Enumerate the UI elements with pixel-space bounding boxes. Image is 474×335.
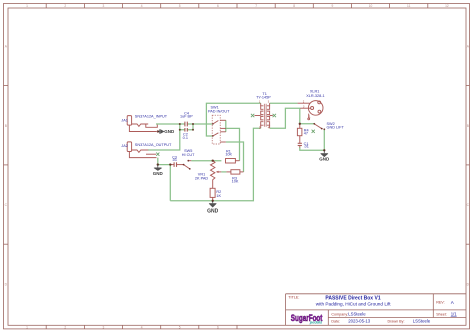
svg-text:with Padding, HiCut and Ground: with Padding, HiCut and Ground Lift xyxy=(316,302,391,307)
svg-text:10K: 10K xyxy=(232,180,239,184)
svg-text:4: 4 xyxy=(141,325,143,329)
svg-text:2: 2 xyxy=(64,4,66,8)
svg-text:SN37A12A_INPUT: SN37A12A_INPUT xyxy=(135,115,168,119)
svg-text:1uF BP: 1uF BP xyxy=(180,115,193,119)
svg-text:GND LIFT: GND LIFT xyxy=(327,125,345,129)
svg-text:TY-145P: TY-145P xyxy=(256,96,271,100)
svg-text:PAD IN/OUT: PAD IN/OUT xyxy=(208,109,230,113)
svg-text:10K: 10K xyxy=(225,153,232,157)
svg-text:LSSteele: LSSteele xyxy=(348,312,366,317)
svg-text:5: 5 xyxy=(179,4,181,8)
svg-text:47: 47 xyxy=(304,132,308,136)
svg-text:3: 3 xyxy=(103,325,105,329)
svg-text:pedals: pedals xyxy=(309,319,323,324)
svg-text:Drawn By:: Drawn By: xyxy=(388,320,405,324)
svg-text:2K PAD: 2K PAD xyxy=(195,176,208,180)
svg-text:.01: .01 xyxy=(304,145,309,149)
svg-text:7: 7 xyxy=(255,4,257,8)
svg-text:JA1: JA1 xyxy=(121,118,128,122)
svg-text:XLR1: XLR1 xyxy=(310,90,320,94)
svg-text:1: 1 xyxy=(26,4,28,8)
svg-text:GND: GND xyxy=(319,157,330,162)
svg-text:Date:: Date: xyxy=(331,320,340,324)
svg-text:11: 11 xyxy=(407,4,411,8)
svg-text:12: 12 xyxy=(445,4,449,8)
svg-text:Company:: Company: xyxy=(331,312,348,316)
svg-text:.01: .01 xyxy=(172,158,177,162)
svg-text:HI CUT: HI CUT xyxy=(182,153,195,157)
svg-text:REV:: REV: xyxy=(436,301,444,305)
svg-text:1/1: 1/1 xyxy=(451,312,458,317)
svg-text:1: 1 xyxy=(26,325,28,329)
svg-text:GND: GND xyxy=(207,209,219,215)
svg-text:1K: 1K xyxy=(216,194,221,198)
svg-text:3: 3 xyxy=(103,4,105,8)
svg-text:6: 6 xyxy=(217,325,219,329)
svg-text:0.1: 0.1 xyxy=(183,136,188,140)
svg-text:9: 9 xyxy=(332,4,334,8)
svg-text:SN37A12A_OUTPUT: SN37A12A_OUTPUT xyxy=(135,143,172,147)
svg-text:TITLE:: TITLE: xyxy=(288,295,299,299)
svg-text:JA2: JA2 xyxy=(121,144,128,148)
svg-text:XLR-328-1: XLR-328-1 xyxy=(306,94,324,98)
svg-text:GND: GND xyxy=(153,171,164,176)
svg-text:GND: GND xyxy=(164,129,175,134)
svg-text:PASSIVE Direct Box V1: PASSIVE Direct Box V1 xyxy=(325,295,380,301)
svg-text:8: 8 xyxy=(293,4,295,8)
svg-text:LSSteele: LSSteele xyxy=(413,319,431,324)
svg-text:2023-05-13: 2023-05-13 xyxy=(348,319,371,324)
svg-text:B: B xyxy=(5,124,7,128)
svg-text:Sheet:: Sheet: xyxy=(436,312,447,316)
svg-text:4: 4 xyxy=(141,4,143,8)
svg-text:5: 5 xyxy=(179,325,181,329)
svg-text:2: 2 xyxy=(64,325,66,329)
svg-text:6: 6 xyxy=(217,4,219,8)
svg-text:10: 10 xyxy=(369,4,373,8)
svg-text:B: B xyxy=(467,124,469,128)
